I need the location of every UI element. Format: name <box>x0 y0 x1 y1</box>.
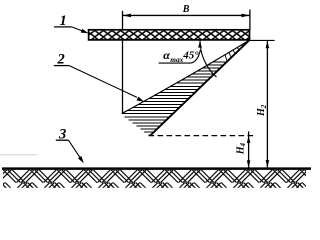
dashed pile level line <box>149 135 256 137</box>
angle arc alpha max 45 <box>200 40 217 77</box>
dimension H2 line <box>266 40 268 168</box>
leader 1 <box>72 27 86 32</box>
stream left boundary (element 2 outline) <box>122 40 249 113</box>
svg-text:max: max <box>170 55 183 64</box>
svg-text:45°: 45° <box>182 49 199 61</box>
H2 top extension line <box>249 39 274 41</box>
svg-text:B: B <box>182 4 190 15</box>
svg-text:α: α <box>163 48 170 62</box>
stream 45-degree hypotenuse <box>150 40 249 135</box>
dimension B extension line right <box>249 10 251 30</box>
ground hatch <box>3 170 306 188</box>
angle leader underline <box>159 50 201 63</box>
leader 2 <box>69 66 137 98</box>
stream hatch lines <box>121 62 228 135</box>
conveyor bar element 1 <box>89 30 250 40</box>
stream upper sliver ticks <box>225 42 247 61</box>
dimension B extension line left <box>122 11 124 114</box>
faint left line <box>0 154 37 156</box>
dimension B line <box>123 14 250 16</box>
ground line element 3 <box>2 167 311 170</box>
dimension H4 line <box>248 131 250 167</box>
leader 3 <box>69 140 83 160</box>
